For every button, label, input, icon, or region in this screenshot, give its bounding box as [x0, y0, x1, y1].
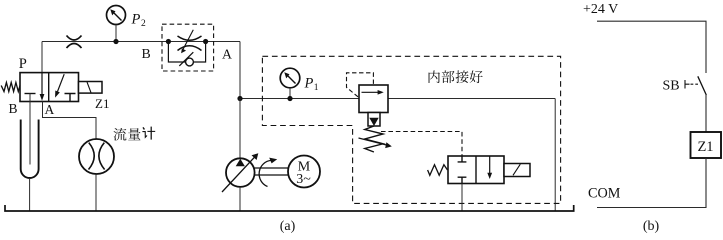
junction dot under P2 — [113, 39, 118, 44]
wire tube drain to tank line — [29, 178, 31, 211]
flow control valve bypass loop — [168, 42, 205, 63]
relief valve exhaust box — [368, 113, 380, 127]
wire B port into measuring tube — [29, 94, 31, 165]
2/2 valve spring — [428, 165, 448, 176]
svg-text:A: A — [222, 47, 232, 62]
2/2 valve solenoid box — [504, 164, 530, 177]
junction dot at pump tee — [237, 96, 242, 101]
svg-text:COM: COM — [588, 186, 621, 202]
flow control valve dashed enclosure — [162, 24, 214, 71]
check valve seat — [179, 52, 193, 66]
rotation direction arc — [259, 160, 271, 186]
svg-text:Z1: Z1 — [95, 96, 109, 111]
measuring tube (collection cup) — [21, 120, 39, 178]
wire right drop to tank line — [554, 99, 556, 212]
motor M3~ — [288, 156, 320, 188]
label text 流量 "流量" — [113, 128, 140, 141]
pilot line relief to 2/2 valve (dashed) — [381, 132, 462, 156]
svg-text:+24 V: +24 V — [583, 2, 618, 17]
relief valve adjustment arrow — [359, 138, 387, 145]
orifice on main line — [67, 36, 82, 49]
2/2 valve body — [448, 156, 504, 184]
2/2 valve pass-through arrow — [489, 156, 491, 173]
svg-text:B: B — [9, 101, 18, 116]
relief valve spring — [365, 126, 383, 152]
drive shaft — [255, 168, 289, 175]
adjustment arrow of throttle — [183, 30, 194, 50]
valve right cell diagonal arrow — [58, 74, 65, 91]
directional valve 3/2 body — [20, 73, 79, 102]
svg-text:2: 2 — [141, 19, 146, 29]
wire pump outlet to tank line — [239, 187, 241, 211]
svg-text:P: P — [19, 56, 27, 72]
wire A port to flow meter — [43, 102, 97, 140]
valve right cell blocked port T — [65, 94, 76, 102]
wire A line corner down to pump line — [239, 42, 241, 99]
svg-text:A: A — [45, 102, 55, 117]
wire from top line down to valve P port — [41, 42, 43, 74]
pressure gauge P2 — [107, 6, 126, 25]
variable displacement arrow through pump — [222, 157, 255, 192]
wire 2/2 valve to tank line — [461, 184, 463, 212]
flow meter — [79, 139, 114, 174]
valve return spring — [1, 83, 20, 92]
pushbutton SB actuator — [685, 80, 690, 89]
junction dots at flow control ports — [166, 39, 171, 44]
relief valve body — [359, 85, 388, 113]
svg-text:(b): (b) — [643, 219, 660, 234]
pump circle — [226, 158, 255, 187]
wire pressure line into pump — [239, 99, 241, 159]
svg-text:P: P — [131, 12, 141, 28]
wire relay to COM — [597, 158, 706, 208]
svg-text:P: P — [304, 76, 314, 92]
svg-text:1: 1 — [314, 83, 319, 93]
throttle arcs in flow control — [178, 36, 202, 51]
svg-text:Z1: Z1 — [697, 139, 713, 155]
svg-text:(a): (a) — [280, 219, 296, 234]
pressure gauge P1 — [280, 68, 300, 88]
solenoid Z1 coil box — [79, 82, 103, 94]
2/2 valve blocked ports — [458, 156, 467, 184]
label text 内部接好 "内部接好" — [429, 70, 483, 83]
relief valve pilot line (dashed) — [347, 73, 374, 97]
valve left cell blocked port T — [25, 93, 36, 95]
check valve ball — [186, 58, 194, 66]
svg-text:SB: SB — [663, 79, 680, 94]
switch blade — [698, 76, 707, 95]
wire mid pressure line — [240, 98, 555, 100]
wire flow meter to tank line — [95, 174, 97, 211]
junction dot under P1 — [287, 96, 292, 101]
svg-text:B: B — [142, 46, 151, 61]
dashed enclosure (internally connected region) — [262, 56, 560, 203]
relay coil Z1 — [691, 132, 722, 158]
wire +24V rail — [597, 21, 706, 73]
wire main top line B-A — [42, 41, 240, 43]
svg-text:3~: 3~ — [296, 172, 311, 187]
wire switch to relay — [705, 95, 707, 132]
tank return baseline — [5, 205, 574, 211]
valve left cell down arrow (P to A) — [41, 73, 43, 95]
